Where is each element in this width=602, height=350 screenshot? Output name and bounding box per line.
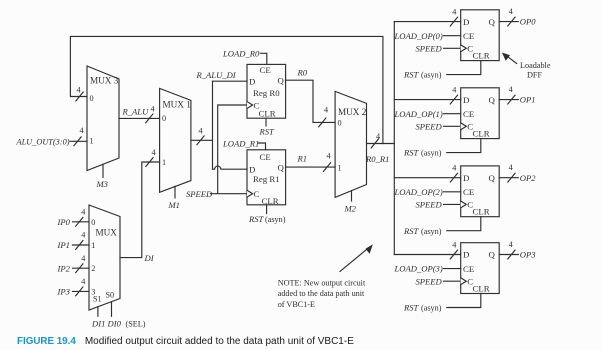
svg-text:RST: RST <box>403 148 420 158</box>
svg-text:LOAD_OP(3): LOAD_OP(3) <box>394 264 443 274</box>
wire IP1 to MUX port 1 <box>73 244 90 246</box>
wire MUX2 select <box>351 191 353 201</box>
svg-text:SPEED: SPEED <box>416 200 443 210</box>
svg-text:RST: RST <box>403 226 420 236</box>
svg-text:Q: Q <box>489 95 496 105</box>
wire select S0 <box>111 302 113 317</box>
svg-text:4: 4 <box>452 240 456 249</box>
wire SPEED to Reg R1 C and up to Reg R0 C <box>211 105 248 194</box>
svg-text:(asyn): (asyn) <box>421 227 442 236</box>
svg-text:D: D <box>463 95 469 105</box>
svg-text:MUX: MUX <box>96 228 118 238</box>
svg-text:Q: Q <box>489 17 496 27</box>
wire IP2 to MUX port 2 <box>73 267 90 269</box>
svg-text:IP0: IP0 <box>57 217 71 227</box>
svg-text:SPEED: SPEED <box>416 121 443 131</box>
svg-text:ALU_OUT(3:0): ALU_OUT(3:0) <box>16 138 70 147</box>
svg-text:DI: DI <box>144 253 155 263</box>
mux MUX1 <box>160 88 191 192</box>
annotation arrow Loadable DFF <box>505 54 517 63</box>
svg-text:(asyn): (asyn) <box>265 215 286 224</box>
caption FIGURE 19.4 <box>17 331 354 349</box>
svg-text:LOAD_R0: LOAD_R0 <box>222 48 260 58</box>
svg-text:Q: Q <box>278 76 285 86</box>
flip-flop DFF2 <box>461 166 500 217</box>
svg-text:Q: Q <box>278 163 285 173</box>
wire D input DFF3 <box>394 254 460 256</box>
svg-text:CLR: CLR <box>259 109 276 119</box>
svg-text:D: D <box>463 250 469 260</box>
svg-text:D: D <box>249 164 255 174</box>
svg-text:LOAD_R1: LOAD_R1 <box>222 138 259 148</box>
wire D input DFF2 <box>394 177 460 179</box>
svg-text:(asyn): (asyn) <box>421 149 442 158</box>
wire R1: Reg R1 Q to MUX2 input 1 <box>286 166 336 168</box>
svg-text:MUX 1: MUX 1 <box>163 100 192 110</box>
svg-text:CE: CE <box>260 65 271 75</box>
svg-text:Loadable: Loadable <box>520 61 551 70</box>
svg-text:1: 1 <box>91 241 95 250</box>
svg-text:CE: CE <box>463 187 474 197</box>
svg-text:SPEED: SPEED <box>416 276 443 286</box>
wire to Reg R1 D (hop over SPEED line) <box>213 166 248 169</box>
wire CLR to RST DFF3 <box>447 294 481 308</box>
clock wedge DFF2 <box>461 201 467 208</box>
svg-text:added to the data path unit: added to the data path unit <box>278 289 365 298</box>
svg-text:LOAD_OP(0): LOAD_OP(0) <box>394 31 443 41</box>
wire R0: Reg R0 Q to MUX2 input 0 <box>286 80 336 122</box>
wire R_ALU_DI: MUX1 out to register D bus <box>191 81 213 169</box>
svg-text:OP3: OP3 <box>520 250 536 260</box>
wire to Reg R0 D <box>213 80 248 82</box>
svg-text:M3: M3 <box>96 179 108 189</box>
wire MUX1 select <box>174 186 176 198</box>
wire R0_R1: MUX2 out to D bus <box>367 143 395 145</box>
wire CLR to RST DFF1 <box>447 139 481 153</box>
svg-text:RST: RST <box>259 127 276 137</box>
svg-text:LOAD_OP(1): LOAD_OP(1) <box>394 109 443 119</box>
register Reg R1 <box>247 150 286 205</box>
wire Q output OP2 <box>499 177 518 179</box>
svg-text:(SEL): (SEL) <box>126 320 146 329</box>
svg-text:0: 0 <box>91 218 95 227</box>
svg-text:CLR: CLR <box>473 283 490 293</box>
svg-text:R0_R1: R0_R1 <box>365 154 389 164</box>
svg-text:4: 4 <box>199 127 203 136</box>
flip-flop DFF1 <box>461 88 500 139</box>
svg-text:CE: CE <box>463 109 474 119</box>
svg-text:CLR: CLR <box>473 50 490 60</box>
svg-text:R1: R1 <box>297 154 308 164</box>
svg-text:CE: CE <box>260 152 271 162</box>
svg-text:4: 4 <box>327 152 331 161</box>
svg-text:SPEED: SPEED <box>186 189 213 199</box>
svg-text:0: 0 <box>162 114 166 123</box>
svg-text:C: C <box>254 189 260 199</box>
svg-text:OP1: OP1 <box>520 95 536 105</box>
svg-text:CE: CE <box>463 31 474 41</box>
svg-text:OP0: OP0 <box>520 17 536 27</box>
svg-text:Q: Q <box>489 250 496 260</box>
clock wedge Reg R1 <box>247 190 253 197</box>
wire CLR to RST DFF0 <box>447 61 481 75</box>
svg-text:D: D <box>463 17 469 27</box>
svg-text:D: D <box>463 173 469 183</box>
svg-text:IP1: IP1 <box>57 240 70 250</box>
wire Reg R0 CLR to RST <box>265 118 267 126</box>
svg-text:4: 4 <box>452 85 456 94</box>
svg-text:4: 4 <box>81 231 85 240</box>
svg-text:CLR: CLR <box>473 207 490 217</box>
clock wedge DFF0 <box>461 45 467 52</box>
wire DI: MUX out to MUX1 input 1 <box>120 162 160 258</box>
svg-text:DFF: DFF <box>527 71 542 80</box>
svg-text:SPEED: SPEED <box>416 43 443 53</box>
svg-text:MUX 3: MUX 3 <box>90 76 119 86</box>
svg-text:4: 4 <box>452 7 456 16</box>
svg-text:4: 4 <box>452 164 456 173</box>
svg-text:Q: Q <box>489 173 496 183</box>
svg-text:M2: M2 <box>344 204 357 214</box>
svg-text:IP2: IP2 <box>57 263 71 273</box>
svg-text:Reg R1: Reg R1 <box>253 174 280 184</box>
wire Q output OP0 <box>499 21 518 23</box>
flip-flop DFF0 <box>461 10 500 61</box>
wire CLR to RST DFF2 <box>447 217 481 231</box>
svg-text:R_ALU: R_ALU <box>122 107 150 117</box>
svg-text:4: 4 <box>81 277 85 286</box>
wire MUX3 select <box>102 164 104 177</box>
mux MUX2 <box>335 91 366 197</box>
wire select S1 <box>97 307 99 317</box>
wire feedback net R0_R1 to MUX3 input 0 <box>70 36 383 143</box>
svg-text:IP3: IP3 <box>57 287 70 297</box>
svg-text:4: 4 <box>376 132 380 141</box>
svg-text:RST: RST <box>248 214 265 224</box>
svg-text:0: 0 <box>338 118 342 127</box>
svg-text:R0: R0 <box>297 68 308 78</box>
svg-text:R_ALU_DI: R_ALU_DI <box>196 70 237 80</box>
wire D input DFF1 <box>394 99 460 101</box>
svg-text:4: 4 <box>81 254 85 263</box>
svg-text:M1: M1 <box>168 200 180 210</box>
svg-text:RST: RST <box>403 303 420 313</box>
svg-text:1: 1 <box>338 163 342 172</box>
svg-text:CE: CE <box>463 264 474 274</box>
svg-text:(asyn): (asyn) <box>421 71 442 80</box>
wire Q output OP3 <box>499 254 518 256</box>
register Reg R0 <box>247 64 286 118</box>
svg-text:4: 4 <box>81 207 85 216</box>
mux MUX3 <box>87 66 119 171</box>
wire ALU_OUT to MUX3 input 1 <box>70 140 87 142</box>
svg-text:4: 4 <box>80 126 84 135</box>
svg-text:0: 0 <box>90 94 94 103</box>
wire IP3 to MUX port 3 <box>73 290 90 292</box>
clock wedge DFF3 <box>461 278 467 285</box>
annotation arrow NOTE <box>340 247 370 271</box>
wire R_ALU: MUX3 out to MUX1 input 0 <box>119 117 160 119</box>
svg-text:S0: S0 <box>106 291 115 300</box>
svg-text:4: 4 <box>324 106 328 115</box>
svg-text:S1: S1 <box>93 294 102 303</box>
wire D bus vertical <box>393 22 395 255</box>
clock wedge Reg R0 <box>247 102 253 109</box>
wire Q output OP1 <box>499 99 518 101</box>
svg-text:RST: RST <box>403 70 420 80</box>
svg-text:OP2: OP2 <box>520 173 536 183</box>
svg-text:MUX 2: MUX 2 <box>338 107 367 117</box>
svg-text:Reg R0: Reg R0 <box>253 88 280 98</box>
svg-text:4: 4 <box>509 240 513 249</box>
svg-text:of VBC1-E: of VBC1-E <box>278 300 315 309</box>
svg-text:4: 4 <box>509 85 513 94</box>
wire D input DFF0 <box>394 21 460 23</box>
svg-text:2: 2 <box>91 264 95 273</box>
wire Reg R1 CLR to RST <box>266 205 268 214</box>
svg-text:CLR: CLR <box>473 128 490 138</box>
svg-text:4: 4 <box>151 105 155 114</box>
svg-text:D: D <box>249 77 255 87</box>
svg-text:(asyn): (asyn) <box>421 304 442 313</box>
svg-text:4: 4 <box>509 163 513 172</box>
mux MUX (input selector) <box>89 205 120 310</box>
bus slash MUX3 input 0 <box>76 92 83 101</box>
svg-text:DI1 DI0: DI1 DI0 <box>91 319 122 329</box>
svg-text:4: 4 <box>152 148 156 157</box>
svg-text:1: 1 <box>90 137 94 146</box>
svg-text:1: 1 <box>162 158 166 167</box>
svg-text:4: 4 <box>509 7 513 16</box>
svg-text:CLR: CLR <box>262 196 279 206</box>
svg-text:4: 4 <box>77 86 81 95</box>
svg-text:NOTE: New output circuit: NOTE: New output circuit <box>278 279 366 288</box>
wire IP0 to MUX port 0 <box>73 221 90 223</box>
svg-text:LOAD_OP(2): LOAD_OP(2) <box>394 187 443 197</box>
flip-flop DFF3 <box>461 243 500 294</box>
clock wedge DFF1 <box>461 123 467 130</box>
